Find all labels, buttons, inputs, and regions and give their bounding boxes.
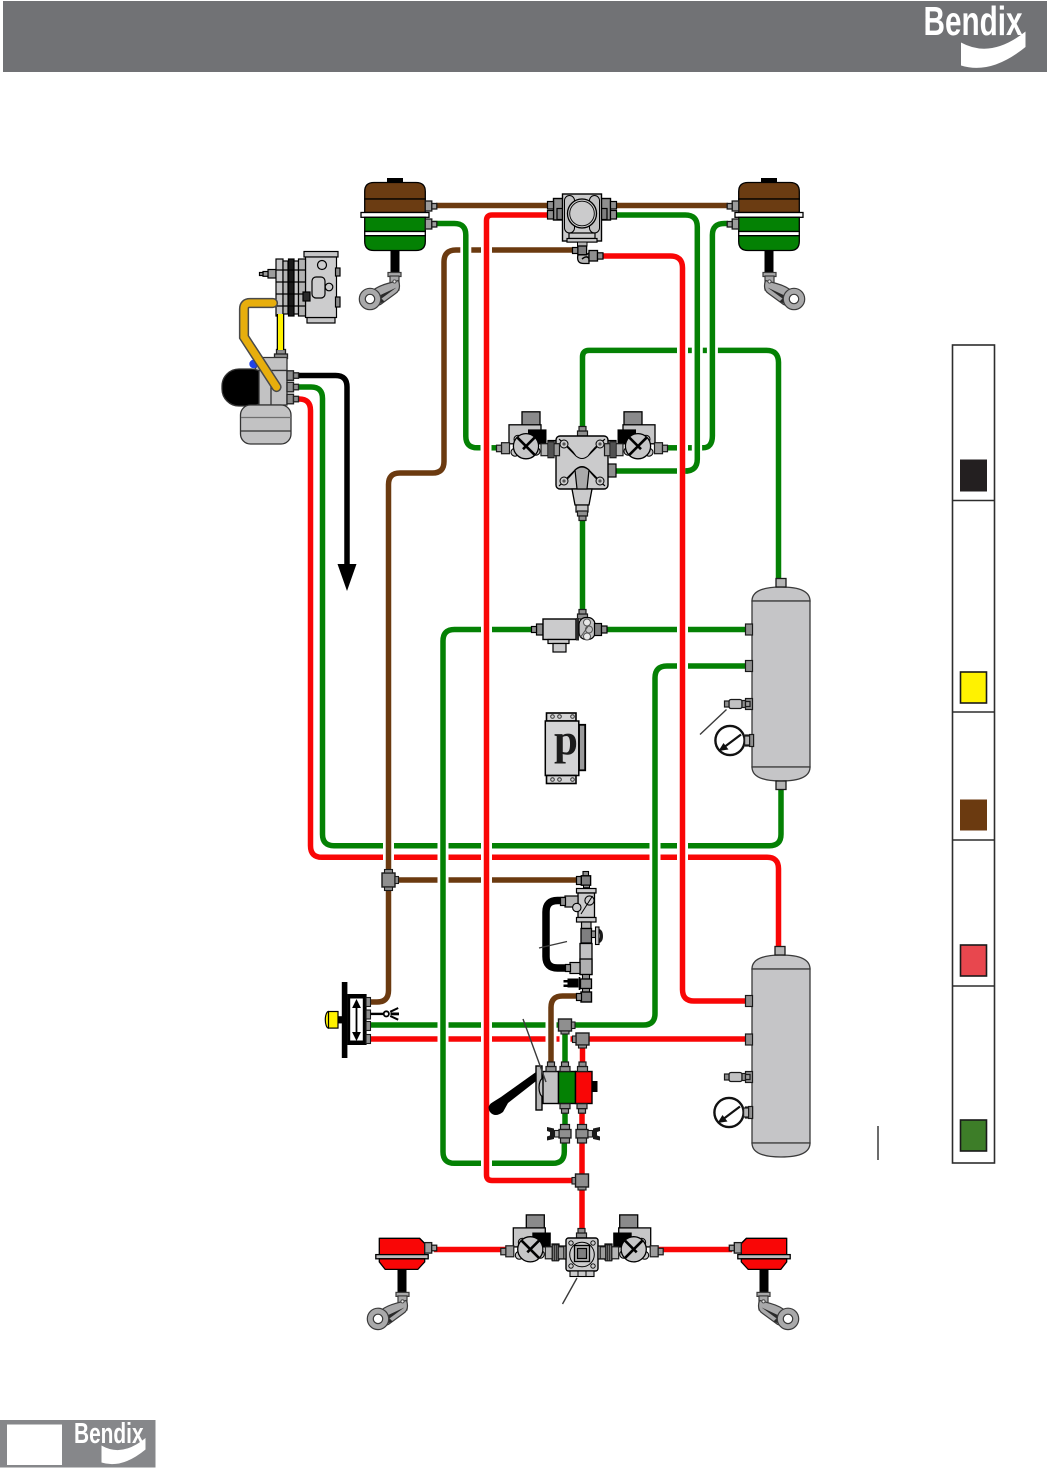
air dryer bbox=[222, 350, 299, 445]
wire red R2 QR elbow to tank2 port1 bbox=[601, 256, 748, 1001]
green tee on park line bbox=[559, 1019, 576, 1034]
legend swatch black bbox=[961, 460, 987, 491]
svg-text:Bendix: Bendix bbox=[924, 0, 1023, 44]
wire red R4b red tee drop to TPV bbox=[580, 1042, 586, 1072]
air tank 2 (secondary) bbox=[752, 955, 810, 1157]
leader line stoplight bbox=[539, 942, 567, 949]
tank1 bottom port bbox=[776, 781, 786, 790]
wire red R6 front axle left bbox=[434, 1247, 506, 1253]
leader line front qr bbox=[563, 1278, 578, 1304]
wire red R5 TPV bottom through coupling to front axle bbox=[579, 1100, 585, 1240]
legend swatch green bbox=[961, 1120, 987, 1151]
legend box bbox=[953, 345, 995, 1163]
wire green G9 tee drop to TPV bbox=[562, 1028, 568, 1072]
ABS modulator front-left bbox=[501, 1215, 564, 1262]
wire black K1 dryer exhaust bbox=[295, 376, 347, 569]
black hose loop bbox=[546, 901, 567, 969]
yellow line compressor bottom to dryer inlet bbox=[277, 314, 285, 350]
discharge hose gold compressor to dryer bbox=[244, 303, 277, 387]
wire red R3 dryer to tank2 top bbox=[295, 399, 779, 953]
leader line tpv bbox=[523, 1019, 546, 1082]
slack adjuster rear-right bbox=[763, 273, 805, 310]
park control valve (yellow knob) bbox=[325, 982, 399, 1058]
ABS modulator rear-left bbox=[497, 412, 560, 459]
slack adjuster front-right bbox=[757, 1292, 799, 1329]
slack adjuster rear-left bbox=[359, 273, 401, 310]
check valve below relay bbox=[532, 610, 608, 653]
legend swatch brown bbox=[961, 800, 987, 830]
tank2 side ports bbox=[746, 996, 753, 1007]
wire red R1 QR valve left down to front axle bbox=[487, 215, 579, 1181]
tank1 side ports bbox=[746, 624, 753, 635]
wire green G4 relay top to tank1 top bbox=[583, 350, 779, 581]
compressor bbox=[260, 252, 341, 324]
wire green G8 tank1 port to park valve bbox=[369, 666, 748, 1025]
svg-text:Bendix: Bendix bbox=[74, 1418, 144, 1450]
wire green G9b TPV bottom to coupling bbox=[562, 1100, 568, 1132]
trailer coupling green (gladhand) bbox=[547, 1125, 571, 1144]
legend swatch yellow bbox=[961, 672, 987, 703]
wire green G3 right chamber to right ABS modulator bbox=[667, 224, 728, 448]
wire red R4 park valve to tank2 port2 bbox=[369, 1036, 748, 1042]
wire brown B2 below QR valve to park valve supply port bbox=[369, 250, 577, 1002]
tank1 gauge bbox=[715, 726, 753, 755]
legend swatch red bbox=[961, 945, 987, 976]
Bendix logo top right bbox=[924, 0, 1023, 44]
brake chamber rear-right (spring brake) bbox=[727, 178, 803, 273]
footer logo bbox=[0, 1418, 156, 1468]
slack adjuster front-left bbox=[367, 1292, 409, 1329]
wire green G11 dryer to tank1 bottom bbox=[295, 387, 781, 846]
svg-text:p: p bbox=[554, 717, 578, 764]
rear relay valve with ABS modulators bbox=[548, 427, 616, 521]
brake chamber front-left bbox=[376, 1238, 437, 1292]
red tee above front axle bbox=[572, 1174, 589, 1190]
red tee on tank2 line bbox=[573, 1033, 590, 1048]
stoplight switch assembly bbox=[546, 872, 603, 1003]
wire brown B3 junction to stoplight assembly bbox=[394, 877, 576, 883]
ABS modulator front-right bbox=[600, 1215, 663, 1262]
wire brown B1 top chambers through QR valve bbox=[436, 203, 728, 209]
tank2 gauge bbox=[714, 1098, 752, 1127]
leader line drain tank1 bbox=[700, 710, 727, 735]
air tank 1 (primary) bbox=[752, 587, 810, 781]
ECU module with p logo bbox=[545, 713, 585, 784]
brake chamber front-right bbox=[729, 1238, 790, 1292]
tank2 drain valve bbox=[725, 1073, 751, 1082]
wire green G2 QR valve right to relay lower port bbox=[611, 215, 697, 471]
front axle QR cross valve bbox=[552, 1229, 612, 1277]
tractor protection valve with handle bbox=[489, 1062, 598, 1115]
tank2 top port bbox=[775, 947, 785, 956]
wire brown B4 assembly elbow down to TPV bbox=[551, 996, 577, 1066]
wire red R6b front axle right bbox=[657, 1247, 732, 1253]
tank1 drain valve bbox=[725, 700, 751, 709]
wire green G6 relay bottom to check valve bbox=[580, 505, 586, 614]
quick release valve top center bbox=[548, 194, 617, 264]
brown junction cross bbox=[382, 870, 399, 891]
tank1 top port bbox=[776, 579, 786, 588]
ABS modulator rear-right bbox=[605, 412, 668, 459]
wire green G7 check valve line to trailer coupling bbox=[443, 630, 748, 1164]
trailer coupling red (gladhand) bbox=[576, 1125, 600, 1144]
arrowhead exhaust bbox=[338, 564, 357, 591]
brake chamber rear-left (spring brake) bbox=[361, 178, 437, 273]
wire green G1 left chamber to left ABS modulator bbox=[433, 224, 497, 448]
header bar bbox=[3, 0, 1047, 72]
leader line legend area bbox=[877, 1126, 879, 1160]
